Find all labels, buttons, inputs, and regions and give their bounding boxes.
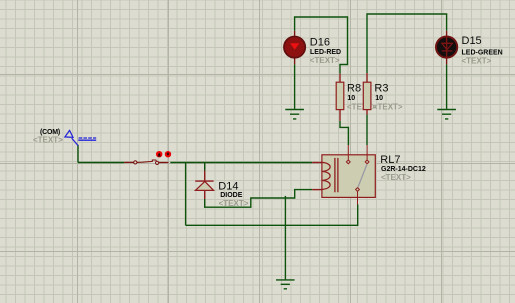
- coil stub pin 1: [312, 162, 323, 164]
- wire ground stem middle: [284, 196, 286, 280]
- ground under D15: [437, 110, 456, 119]
- svg-text:D15: D15: [462, 35, 482, 47]
- wire R8 bottom to relay pin: [340, 121, 348, 145]
- svg-text:LED-GREEN: LED-GREEN: [462, 50, 503, 57]
- wire D16 top to R8 top: [295, 17, 348, 74]
- wire bottom horizontal to relay pole: [186, 205, 358, 226]
- contact pin from R3: [365, 145, 369, 164]
- switch toggle dot 2: [165, 151, 171, 157]
- switch contacts: [124, 160, 168, 164]
- svg-text:<TEXT>: <TEXT>: [462, 57, 492, 66]
- relay RL7: [312, 145, 375, 205]
- svg-text:<TEXT>: <TEXT>: [373, 103, 403, 112]
- wire vertical drop x=185.6: [185, 163, 187, 226]
- wire D15 bottom to ground: [446, 64, 448, 109]
- ground middle: [276, 280, 295, 289]
- pole pin: [356, 188, 360, 205]
- wire diode top connection: [204, 163, 206, 171]
- coil: [322, 162, 330, 189]
- LED D15: [436, 31, 457, 65]
- wire main horizontal left segment: [78, 162, 124, 164]
- svg-text:<TEXT>: <TEXT>: [219, 199, 249, 208]
- svg-text:10: 10: [375, 95, 383, 102]
- svg-text:R3: R3: [374, 83, 388, 95]
- wire D16 bottom to ground: [294, 64, 296, 109]
- wire switch terminal down: [77, 145, 79, 163]
- svg-text:LED-RED: LED-RED: [310, 49, 341, 56]
- svg-text:<TEXT>: <TEXT>: [310, 56, 340, 65]
- svg-text:D16: D16: [310, 37, 330, 49]
- svg-text:R8: R8: [347, 83, 361, 95]
- svg-text:D14: D14: [218, 180, 238, 192]
- wire R3 top to D15 top: [367, 14, 447, 73]
- svg-text:<TEXT>: <TEXT>: [33, 135, 63, 144]
- wire diode bottom staircase to coil pin 2: [205, 190, 313, 208]
- switch toggle dot 1: [156, 151, 162, 157]
- wire main horizontal to relay coil: [170, 162, 312, 164]
- core bars: [335, 158, 338, 192]
- contact pin from R8: [346, 145, 350, 164]
- svg-text:RL7: RL7: [380, 154, 400, 166]
- svg-text:10: 10: [347, 95, 355, 102]
- LED D16: [284, 31, 305, 65]
- moving contact: [358, 164, 367, 187]
- coil stub pin 2: [312, 189, 323, 191]
- resistor R8: [336, 74, 344, 121]
- ground under D16: [285, 110, 304, 119]
- switch actuator (COM): [65, 130, 96, 145]
- resistor R3: [363, 73, 371, 115]
- svg-text:G2R-14-DC12: G2R-14-DC12: [381, 166, 426, 173]
- diode D14: [195, 171, 213, 200]
- svg-text:<TEXT>: <TEXT>: [381, 173, 411, 182]
- wire R3 bottom to relay pin: [366, 115, 368, 145]
